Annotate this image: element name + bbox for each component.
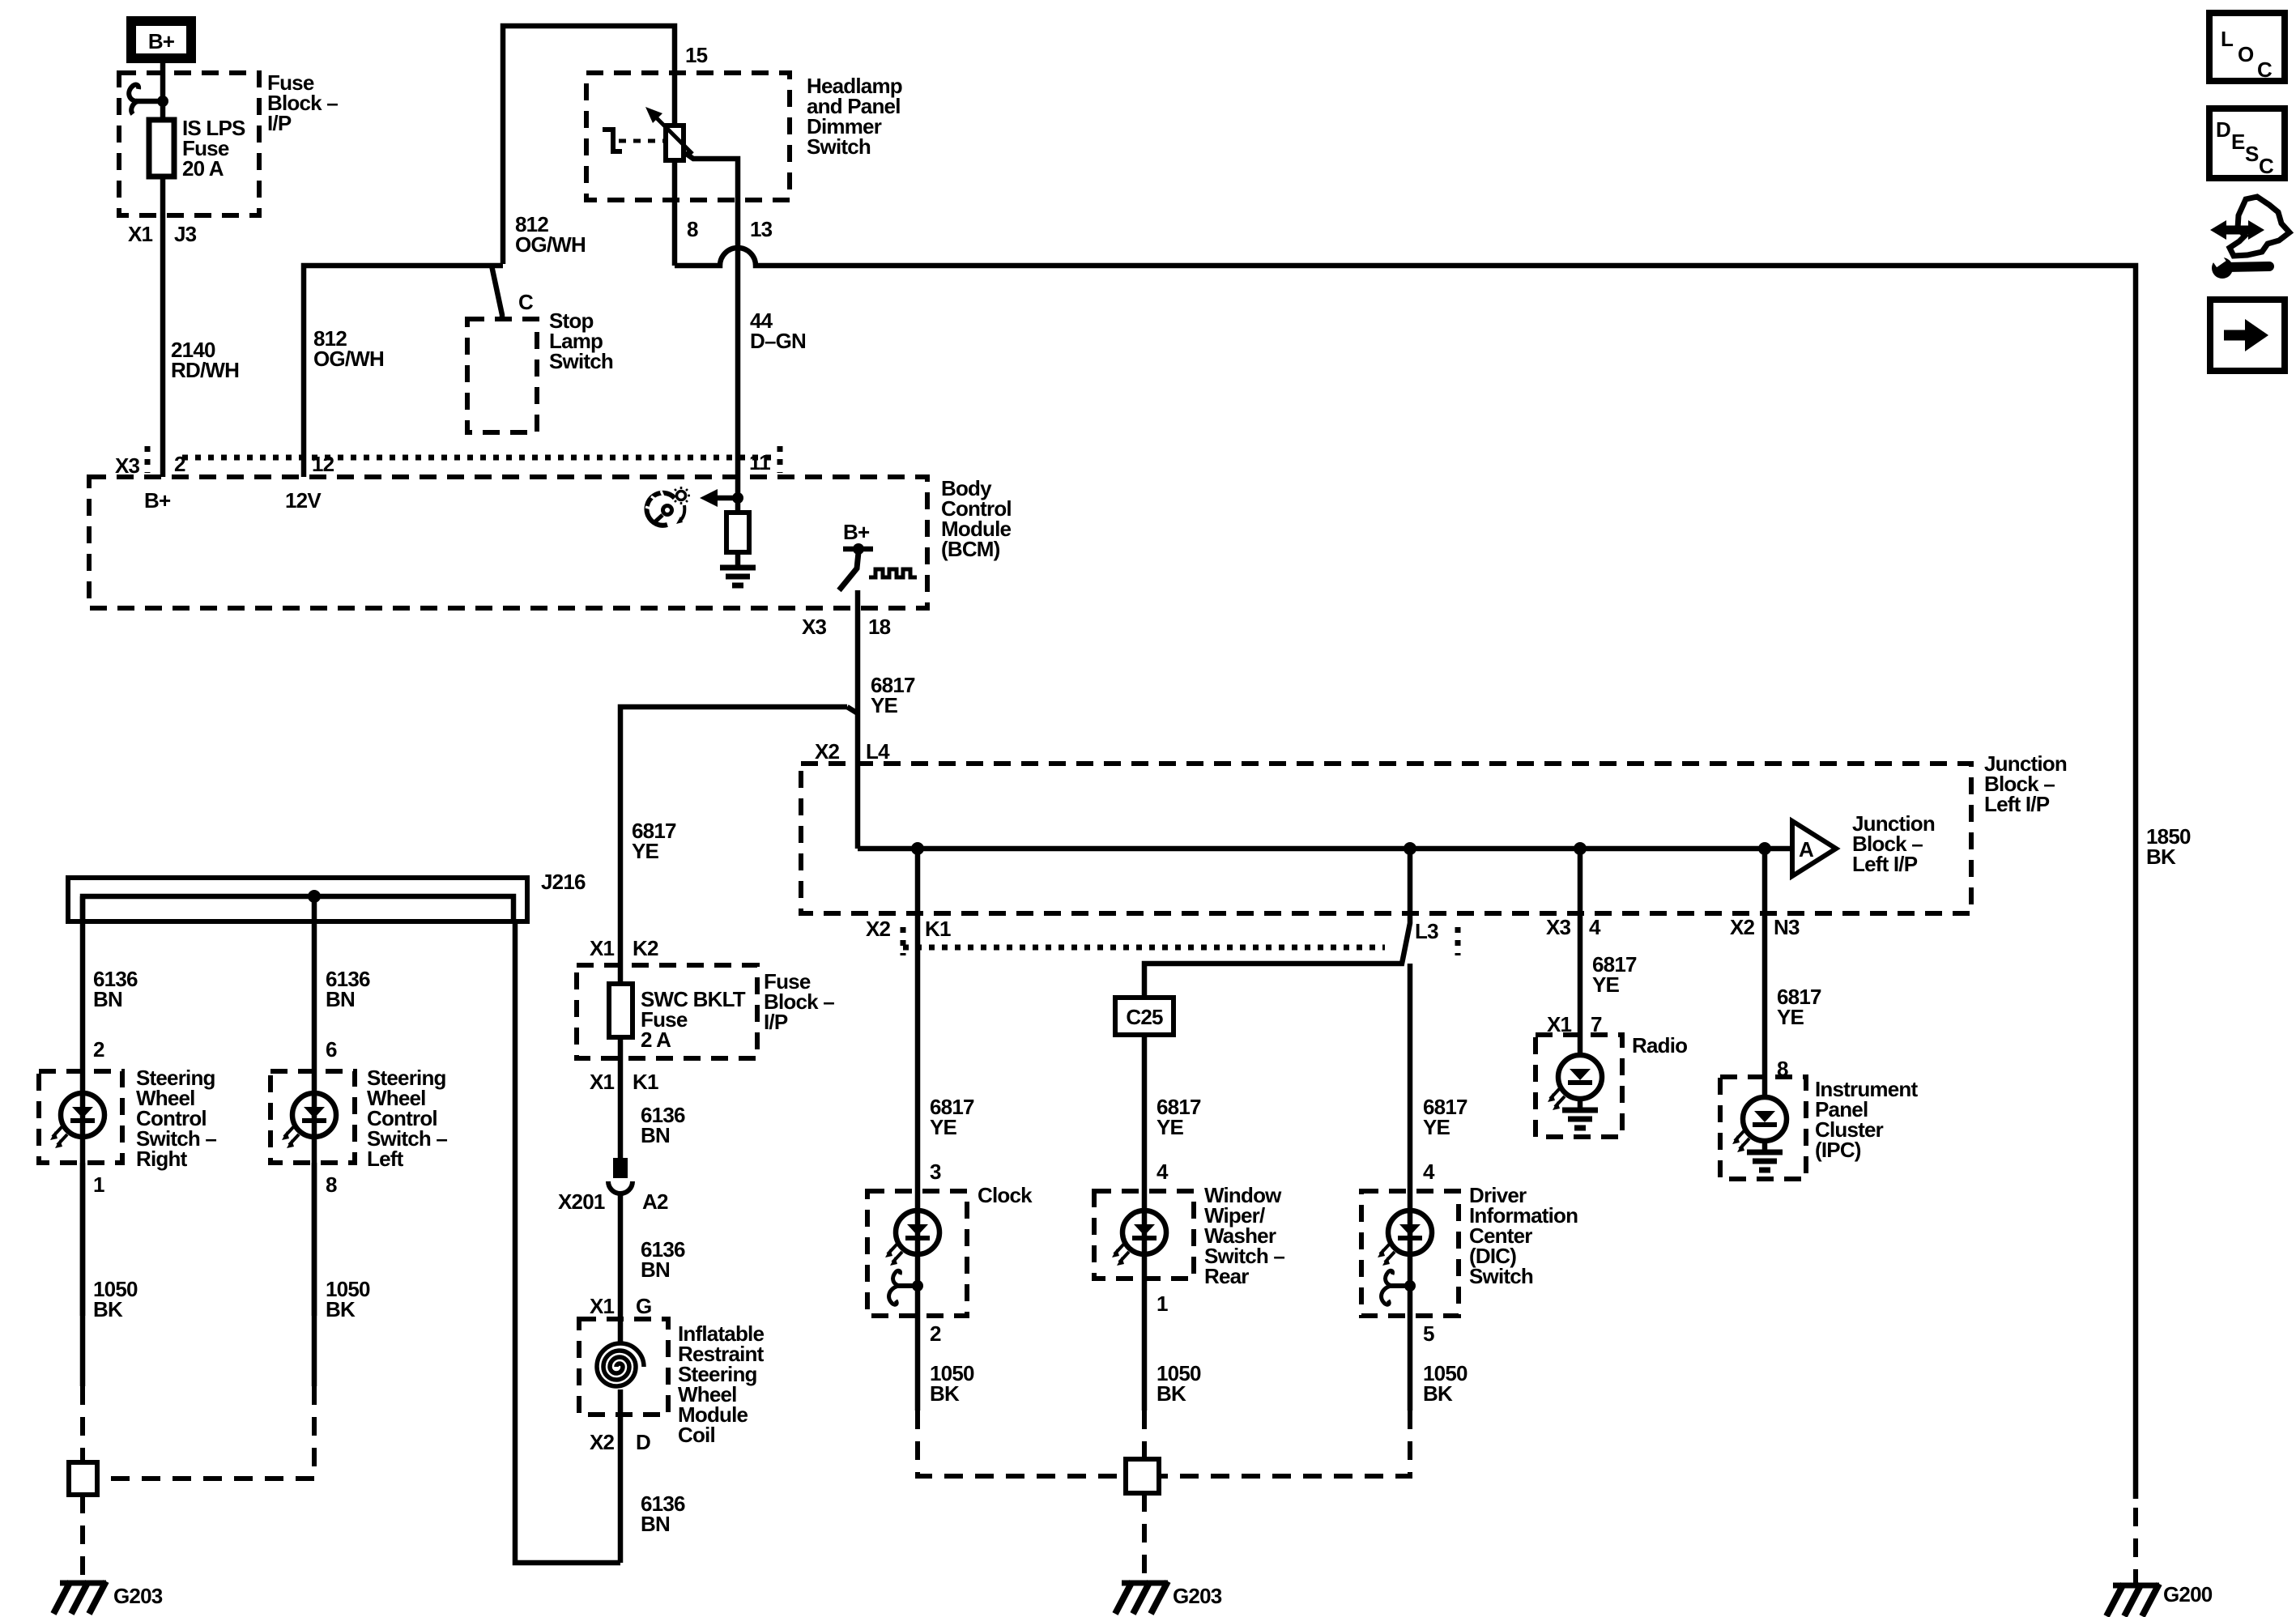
wire 1850 BK to G200 xyxy=(2133,1508,2138,1583)
IPC internal ground xyxy=(1747,1152,1783,1170)
wire C25 to wiper switch xyxy=(1142,1035,1148,1279)
svg-text:OG/WH: OG/WH xyxy=(515,232,586,257)
steering wheel control switch right dashed box xyxy=(39,1071,122,1163)
svg-text:1: 1 xyxy=(1157,1291,1168,1316)
svg-text:Right: Right xyxy=(136,1147,188,1171)
center ground splice xyxy=(1126,1459,1159,1493)
svg-text:G200: G200 xyxy=(2163,1582,2213,1606)
window wiper/washer switch rear dashed box xyxy=(1094,1191,1194,1279)
wrench icon xyxy=(2212,255,2269,279)
svg-text:N3: N3 xyxy=(1774,915,1800,939)
svg-text:4: 4 xyxy=(1157,1160,1169,1184)
svg-text:Left: Left xyxy=(367,1147,404,1171)
svg-text:B+: B+ xyxy=(144,488,171,513)
svg-text:D: D xyxy=(636,1430,650,1454)
clock dashed box xyxy=(867,1191,967,1316)
svg-text:(IPC): (IPC) xyxy=(1815,1138,1861,1162)
svg-text:C: C xyxy=(2259,154,2274,178)
radio dashed box xyxy=(1536,1035,1622,1137)
branch 6817 YE to SWC BKLT fuse xyxy=(620,707,847,965)
svg-text:Radio: Radio xyxy=(1632,1033,1687,1057)
svg-text:L3: L3 xyxy=(1415,919,1438,943)
wire 6136 BN to left steering switch xyxy=(312,896,317,1316)
battery feed B+ box xyxy=(131,21,191,58)
BCM internal ground xyxy=(720,568,756,585)
svg-text:4: 4 xyxy=(1589,915,1601,939)
fuse block I/P dashed box (top left) xyxy=(119,73,259,215)
interconnect double-arrow icon xyxy=(2210,197,2290,256)
clock case ground hook xyxy=(889,1270,923,1304)
DIC case ground hook xyxy=(1382,1270,1416,1304)
svg-text:L4: L4 xyxy=(866,739,890,764)
wire 6136 BN to coil xyxy=(618,1194,624,1344)
BCM arrow into gauge from pin 11 wire xyxy=(700,489,743,507)
svg-text:YE: YE xyxy=(1592,972,1620,997)
wire stub into stop lamp switch C xyxy=(492,266,502,319)
junction block buffer triangle A xyxy=(1792,811,1935,876)
svg-text:I/P: I/P xyxy=(267,111,292,135)
fuse block I/P dashed box (SWC BKLT) xyxy=(577,965,757,1058)
node L3 xyxy=(1404,842,1416,855)
svg-text:X2: X2 xyxy=(1730,915,1755,939)
svg-text:RD/WH: RD/WH xyxy=(171,358,239,382)
svg-text:K2: K2 xyxy=(633,936,658,960)
wire 812 OG/WH riser to dimmer pin 15 xyxy=(503,26,675,264)
connector X3 dotted line above BCM xyxy=(115,446,780,478)
svg-text:18: 18 xyxy=(868,615,891,639)
svg-text:X1: X1 xyxy=(128,222,153,246)
svg-text:13: 13 xyxy=(750,217,773,241)
clockspring coil spiral xyxy=(597,1343,644,1386)
svg-text:OG/WH: OG/WH xyxy=(313,347,384,371)
svg-text:K1: K1 xyxy=(633,1070,658,1094)
DIC switch dashed box xyxy=(1361,1191,1459,1316)
wire X2/N3 to IPC xyxy=(1762,849,1768,1098)
svg-text:YE: YE xyxy=(1157,1115,1184,1139)
junction block left I/P dashed box xyxy=(801,764,1971,913)
svg-text:8: 8 xyxy=(326,1172,337,1197)
svg-text:12: 12 xyxy=(312,452,334,476)
BCM internal resistor to ground xyxy=(726,498,749,565)
right switch backlight LED xyxy=(50,1093,104,1148)
connector X201 pin A2 xyxy=(558,1158,668,1214)
wire 6136 BN return loop to J216 xyxy=(515,921,620,1563)
wire down to DIC switch xyxy=(1408,964,1413,1316)
splice to ground G203 xyxy=(1142,1493,1147,1579)
svg-text:YE: YE xyxy=(871,693,898,717)
svg-text:Coil: Coil xyxy=(678,1423,715,1447)
fuse feed curl symbol xyxy=(129,85,168,114)
pin 13 tap from rheostat xyxy=(685,153,738,498)
wiper switch backlight LED xyxy=(1112,1211,1166,1266)
svg-text:X1: X1 xyxy=(590,1070,615,1094)
headlamp and panel dimmer switch box xyxy=(586,73,790,200)
svg-text:X3: X3 xyxy=(802,615,827,639)
svg-text:BK: BK xyxy=(930,1381,960,1406)
splice to ground G203 left xyxy=(80,1495,85,1579)
svg-text:BK: BK xyxy=(1157,1381,1186,1406)
svg-text:(BCM): (BCM) xyxy=(941,537,1000,561)
svg-text:Switch: Switch xyxy=(1469,1264,1533,1288)
svg-text:X2: X2 xyxy=(815,739,840,764)
svg-text:3: 3 xyxy=(930,1160,941,1184)
LOC legend box xyxy=(2209,13,2285,82)
BCM gauge-illumination icon xyxy=(645,487,690,526)
clock backlight LED xyxy=(885,1211,939,1266)
svg-text:15: 15 xyxy=(685,43,708,67)
connector X2 dotted line under junction block xyxy=(901,927,906,955)
svg-text:X1: X1 xyxy=(590,1294,615,1318)
left ground splice xyxy=(69,1462,97,1495)
svg-text:C25: C25 xyxy=(1126,1005,1163,1029)
svg-text:2: 2 xyxy=(93,1037,104,1062)
svg-text:YE: YE xyxy=(1777,1005,1804,1029)
svg-text:BN: BN xyxy=(641,1512,670,1536)
svg-text:Switch: Switch xyxy=(549,349,613,373)
forward arrow legend box xyxy=(2210,300,2285,371)
svg-text:J3: J3 xyxy=(174,222,197,246)
inflatable restraint steering wheel module coil dashed box xyxy=(579,1319,668,1415)
svg-text:B+: B+ xyxy=(148,29,175,53)
radio internal ground xyxy=(1562,1110,1598,1128)
BCM internal B+ PWM switch xyxy=(839,520,917,590)
svg-text:BN: BN xyxy=(641,1123,670,1147)
splice pack J216 xyxy=(68,870,586,921)
node X3/4 xyxy=(1574,842,1587,855)
rheostat (dimmer potentiometer) xyxy=(645,107,692,160)
svg-text:A: A xyxy=(1799,837,1814,862)
svg-text:BN: BN xyxy=(93,987,122,1011)
svg-text:I/P: I/P xyxy=(764,1010,788,1034)
svg-text:2: 2 xyxy=(174,452,185,476)
svg-text:Switch: Switch xyxy=(807,134,871,159)
svg-text:X2: X2 xyxy=(866,917,891,941)
wire K1 to clock xyxy=(915,849,921,1316)
svg-text:K1: K1 xyxy=(925,917,951,941)
wire 2140 RD/WH from B+ through fuse to BCM X3/2 xyxy=(160,63,166,477)
wire X3/4 to radio xyxy=(1578,849,1583,1056)
svg-text:E: E xyxy=(2231,130,2245,154)
svg-text:20 A: 20 A xyxy=(182,156,224,181)
ground G200 xyxy=(2106,1584,2159,1616)
junction block internal bus xyxy=(858,846,1792,852)
svg-text:BN: BN xyxy=(326,987,355,1011)
svg-text:BK: BK xyxy=(2146,845,2176,869)
svg-text:L: L xyxy=(2221,27,2234,51)
clock ground wire to splice xyxy=(915,1316,921,1411)
svg-text:4: 4 xyxy=(1423,1160,1435,1184)
radio backlight LED xyxy=(1548,1055,1602,1110)
svg-text:O: O xyxy=(2238,42,2254,66)
svg-text:G: G xyxy=(636,1294,651,1318)
svg-text:6: 6 xyxy=(326,1037,337,1062)
svg-text:YE: YE xyxy=(1423,1115,1450,1139)
svg-text:1: 1 xyxy=(93,1172,104,1197)
node X2/N3 xyxy=(1758,842,1771,855)
svg-text:X2: X2 xyxy=(590,1430,615,1454)
svg-text:5: 5 xyxy=(1423,1321,1434,1346)
DIC ground wire to splice xyxy=(1408,1316,1413,1411)
svg-text:X3: X3 xyxy=(1546,915,1571,939)
svg-text:BK: BK xyxy=(93,1297,123,1321)
svg-text:12V: 12V xyxy=(285,488,322,513)
fuse IS LPS 20 A xyxy=(149,120,174,177)
wire 6136 BN to right steering switch xyxy=(80,896,86,1316)
wiper ground wire to splice xyxy=(1142,1279,1148,1411)
svg-text:C: C xyxy=(518,290,534,314)
svg-text:D: D xyxy=(2216,117,2230,142)
svg-text:BN: BN xyxy=(641,1257,670,1282)
IPC backlight LED xyxy=(1732,1097,1787,1152)
fuse SWC BKLT 2 A xyxy=(618,965,624,1158)
BCM output pin X3/18 xyxy=(855,590,861,608)
wiper bracket and dashed wiper link xyxy=(603,130,664,151)
svg-text:G203: G203 xyxy=(1173,1584,1222,1608)
wire L3 to C25 and DIC xyxy=(1144,849,1410,998)
node K1 xyxy=(911,842,924,855)
svg-text:YE: YE xyxy=(930,1115,957,1139)
svg-text:2 A: 2 A xyxy=(641,1028,671,1052)
wire 812 OG/WH horizontal to BCM 12V xyxy=(304,266,503,477)
svg-text:X1: X1 xyxy=(590,936,615,960)
svg-text:X201: X201 xyxy=(558,1189,605,1214)
svg-text:Clock: Clock xyxy=(978,1183,1033,1207)
svg-text:8: 8 xyxy=(687,217,698,241)
svg-text:C: C xyxy=(2257,57,2273,82)
svg-text:D–GN: D–GN xyxy=(750,329,806,353)
stop lamp switch box xyxy=(467,319,537,432)
svg-text:J216: J216 xyxy=(541,870,586,894)
instrument panel cluster dashed box xyxy=(1720,1077,1806,1179)
connector C25 xyxy=(1115,998,1174,1035)
right switch ground wire xyxy=(80,1163,86,1386)
svg-text:YE: YE xyxy=(632,839,659,863)
svg-text:X3: X3 xyxy=(115,453,140,478)
DESC legend box xyxy=(2209,109,2285,178)
left switch ground wire to splice xyxy=(312,1163,317,1386)
svg-text:B+: B+ xyxy=(843,520,870,544)
left switch backlight LED xyxy=(282,1093,336,1148)
wire 6817 YE from BCM to junction block xyxy=(855,608,861,849)
svg-text:A2: A2 xyxy=(642,1189,668,1214)
body control module (BCM) dashed box xyxy=(89,477,927,608)
svg-text:G203: G203 xyxy=(113,1584,163,1608)
svg-text:11: 11 xyxy=(749,450,770,474)
svg-text:2: 2 xyxy=(930,1321,941,1346)
svg-text:Left I/P: Left I/P xyxy=(1984,792,2050,816)
svg-text:S: S xyxy=(2245,142,2259,166)
steering wheel control switch left dashed box xyxy=(270,1071,355,1163)
wire from dimmer pin 8 to right margin with hop over 44 D-GN xyxy=(675,248,2136,1499)
svg-text:BK: BK xyxy=(1423,1381,1453,1406)
DIC backlight LED xyxy=(1378,1211,1432,1266)
svg-text:Rear: Rear xyxy=(1204,1264,1249,1288)
svg-text:Left I/P: Left I/P xyxy=(1852,852,1918,876)
svg-text:BK: BK xyxy=(326,1297,356,1321)
pin 8 wire down from rheostat xyxy=(672,160,678,266)
